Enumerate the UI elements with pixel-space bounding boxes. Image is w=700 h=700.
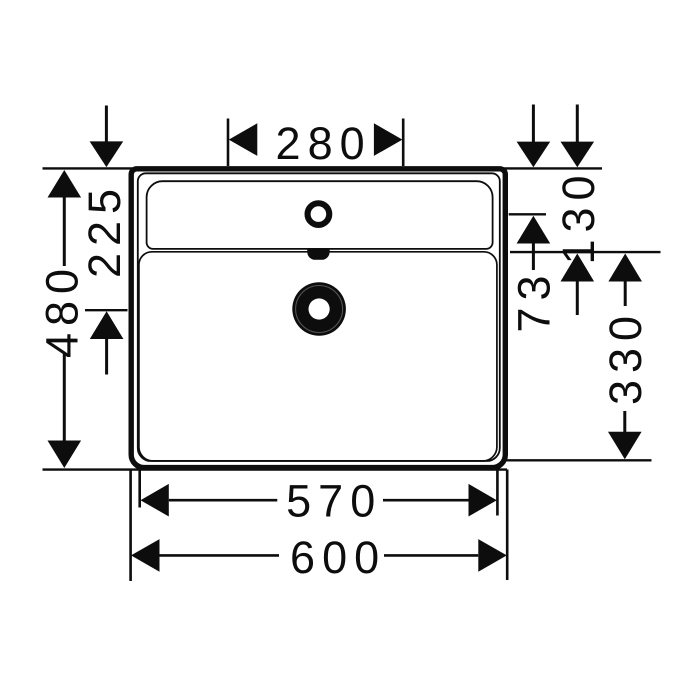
- dim 600 left extension line: [129, 470, 132, 581]
- deck step reference line (130): [510, 251, 661, 253]
- dim 225 bottom arrow: [90, 311, 124, 339]
- bowl contour: [139, 252, 497, 461]
- dim 330 bottom arrow: [623, 411, 626, 433]
- drain outer disc: [292, 282, 346, 336]
- faucet deck inner contour: [147, 181, 493, 249]
- top reference line: [43, 167, 603, 169]
- dim 130 top arrow: [576, 105, 579, 143]
- bowl front reference line (330): [505, 459, 652, 461]
- dim 570 left arrow: [141, 484, 169, 517]
- dim 280 right arrow: [374, 123, 403, 156]
- drain hole: [309, 298, 330, 319]
- dim 600 right extension line: [506, 470, 509, 581]
- dim 570 right extension line: [496, 471, 499, 516]
- svg-text:280: 280: [276, 118, 372, 169]
- basin inner rim contour: [138, 173, 500, 461]
- bottom reference line: [43, 468, 508, 470]
- dim 130 bottom arrow: [561, 254, 595, 282]
- dim 73 bottom arrow: [517, 216, 551, 244]
- dim 600 left arrow: [131, 539, 160, 572]
- dim 480 bottom arrow: [63, 353, 66, 441]
- drain center reference line (225): [85, 309, 128, 311]
- dim 570 right arrow: [469, 484, 497, 517]
- drain inner ring: [296, 286, 343, 333]
- faucet level reference line (73): [509, 213, 546, 215]
- basin outer contour: [131, 169, 505, 468]
- svg-text:480: 480: [36, 262, 87, 358]
- dim 600 right arrow: [478, 539, 507, 572]
- dim 330 top arrow: [608, 254, 642, 282]
- svg-text:330: 330: [600, 309, 651, 405]
- svg-text:600: 600: [290, 532, 386, 583]
- svg-text:570: 570: [286, 476, 382, 527]
- dim 280 right extension line: [402, 119, 405, 167]
- dim 225 top arrow: [105, 106, 108, 143]
- dim 570 left extension line: [138, 471, 141, 508]
- svg-text:73: 73: [509, 268, 560, 332]
- dim 480 top arrow: [48, 170, 82, 198]
- svg-text:130: 130: [553, 168, 604, 264]
- overflow slot: [307, 249, 330, 260]
- dim 73 top arrow: [532, 105, 535, 143]
- dim 280 left extension line: [227, 119, 230, 167]
- dim 280 left arrow: [229, 123, 257, 156]
- faucet hole: [308, 203, 330, 225]
